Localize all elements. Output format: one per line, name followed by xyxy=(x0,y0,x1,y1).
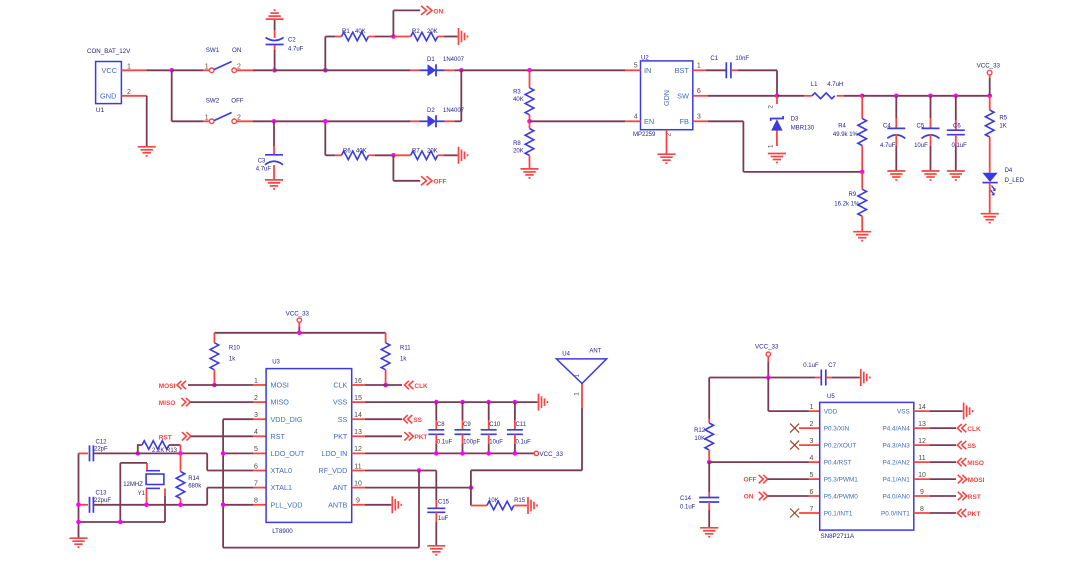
wire node A to U2 IN xyxy=(461,69,625,71)
junction C9 bottom xyxy=(460,451,465,456)
wire C2 lead upper xyxy=(274,19,276,38)
capacitor C2 4.7uF xyxy=(266,38,304,53)
junction C2 node xyxy=(272,68,277,73)
junction R13 left xyxy=(136,451,141,456)
IC U3 LT8900 xyxy=(254,359,362,535)
svg-text:7: 7 xyxy=(254,480,258,487)
svg-text:10: 10 xyxy=(918,472,926,479)
junction C11 top xyxy=(513,400,518,405)
port CLK xyxy=(404,381,428,390)
wire OFF pin5 xyxy=(768,478,820,480)
wire VDD_DIG pin3 xyxy=(223,418,266,420)
resistor R12 10K xyxy=(694,378,713,463)
wire LDO_OUT pin5 xyxy=(223,452,266,454)
wire V1 bottom loop xyxy=(223,471,419,548)
wire U2 pin4 stub xyxy=(625,120,641,122)
svg-text:PKT: PKT xyxy=(414,434,427,441)
svg-text:R14: R14 xyxy=(188,476,200,482)
wire R1 branch xyxy=(325,37,341,71)
ground below U1 xyxy=(138,147,156,156)
junction C11 bottom xyxy=(513,451,518,456)
wire U2 SW pin xyxy=(693,95,777,97)
svg-text:0.1uF: 0.1uF xyxy=(680,504,696,510)
svg-text:PLL_VDD: PLL_VDD xyxy=(271,500,303,509)
svg-text:RST: RST xyxy=(271,432,286,441)
port MOSI (U5) xyxy=(958,475,985,484)
ground below R8 xyxy=(521,169,539,178)
wire CLK xyxy=(352,384,402,386)
power port VCC_33 (U3) xyxy=(286,311,310,323)
resistor R7 20K xyxy=(393,148,457,159)
junction V1 pin8 xyxy=(221,503,226,508)
svg-text:SS: SS xyxy=(413,417,422,424)
svg-text:MOSI: MOSI xyxy=(968,477,985,484)
svg-text:R2: R2 xyxy=(412,29,420,35)
port OFF xyxy=(744,475,768,484)
junction pin11/V1 xyxy=(417,468,422,473)
ground below C4 xyxy=(887,171,905,180)
junction C6 xyxy=(954,94,959,99)
svg-text:1k: 1k xyxy=(400,357,407,363)
svg-text:15: 15 xyxy=(354,395,362,402)
wire MISO xyxy=(190,401,266,403)
LED D4 D_LED xyxy=(982,168,1024,195)
wire SW1 to C2 node xyxy=(237,69,275,71)
svg-text:C2: C2 xyxy=(288,38,296,44)
ground below left rail xyxy=(70,538,88,547)
wire MOSI pin10 xyxy=(914,478,956,480)
wire VCC33 U5 rail xyxy=(709,356,821,377)
crystal Y1 12MHZ xyxy=(79,463,166,522)
junction R5/VCC column xyxy=(987,94,992,99)
svg-text:0.1uF: 0.1uF xyxy=(952,143,968,149)
wire R1-R2 xyxy=(369,36,394,38)
capacitor C8 0.1uF xyxy=(428,402,452,453)
wire branch to SW2 xyxy=(172,70,203,121)
svg-text:4.7uF: 4.7uF xyxy=(288,47,304,53)
svg-text:1k: 1k xyxy=(229,357,236,363)
svg-text:12: 12 xyxy=(354,446,362,453)
svg-text:IN: IN xyxy=(644,66,651,75)
svg-text:1: 1 xyxy=(205,115,209,122)
wire out rail xyxy=(862,95,990,97)
svg-text:LDO_IN: LDO_IN xyxy=(321,449,347,458)
svg-text:P4.0/AN0: P4.0/AN0 xyxy=(882,493,910,500)
svg-text:0.1uF: 0.1uF xyxy=(803,363,819,369)
svg-text:R5: R5 xyxy=(999,115,1007,121)
ground right of VSS rail xyxy=(539,394,548,411)
wire RF_VDD pin11 xyxy=(352,470,437,472)
wire left rail xyxy=(78,453,80,538)
svg-text:C15: C15 xyxy=(438,500,450,506)
svg-text:2: 2 xyxy=(767,105,774,109)
svg-text:FB: FB xyxy=(680,117,690,126)
wire OFF branch xyxy=(393,155,420,181)
svg-text:SS: SS xyxy=(338,415,348,424)
port MISO xyxy=(159,398,191,407)
wire ANT pin10 xyxy=(352,487,471,489)
capacitor C11 0.1uF xyxy=(507,402,531,453)
junction Y1 lower lead xyxy=(144,503,149,508)
svg-text:C7: C7 xyxy=(828,363,836,369)
svg-text:3: 3 xyxy=(810,438,814,445)
ground below U2 GDN xyxy=(658,154,676,163)
svg-text:D_LED: D_LED xyxy=(1005,178,1025,184)
ground below D3 xyxy=(768,154,786,163)
svg-text:GND: GND xyxy=(100,91,116,100)
wire SW2 to C3 node xyxy=(237,120,275,122)
resistor R15 10K xyxy=(487,498,527,510)
svg-text:C11: C11 xyxy=(516,422,527,428)
svg-text:P0.4/RST: P0.4/RST xyxy=(824,460,852,467)
svg-text:P4.4/AN4: P4.4/AN4 xyxy=(882,426,910,433)
no-connect X pin3 xyxy=(790,441,820,450)
svg-text:RF_VDD: RF_VDD xyxy=(319,466,348,475)
svg-text:40K: 40K xyxy=(355,29,366,35)
wire node to D1 xyxy=(275,69,411,71)
junction R11/CLK xyxy=(383,383,388,388)
svg-text:5: 5 xyxy=(634,63,638,70)
svg-text:P0.0/INT1: P0.0/INT1 xyxy=(881,510,910,517)
wire CLK pin13 xyxy=(914,427,956,429)
ground below C14 xyxy=(700,528,718,537)
junction R6/R7/OFF xyxy=(391,153,396,158)
ground right of ANTB xyxy=(392,496,401,513)
wire PKT xyxy=(352,435,402,437)
junction VCC33 U5 xyxy=(766,375,771,380)
svg-text:2: 2 xyxy=(254,395,258,402)
wire R6 branch xyxy=(325,121,341,155)
svg-text:C5: C5 xyxy=(917,123,925,129)
wire to VCC33 port xyxy=(989,75,991,96)
svg-text:R8: R8 xyxy=(513,141,521,147)
svg-text:P4.3/AN3: P4.3/AN3 xyxy=(882,443,910,450)
svg-text:20K: 20K xyxy=(427,29,438,35)
svg-text:0.1uF: 0.1uF xyxy=(516,440,532,446)
wire C3 lead upper xyxy=(273,121,275,155)
svg-text:P4.1/AN1: P4.1/AN1 xyxy=(882,477,910,484)
resistor R3 40K xyxy=(513,70,534,121)
svg-text:1: 1 xyxy=(810,404,814,411)
svg-text:CLK: CLK xyxy=(967,426,981,433)
svg-text:16: 16 xyxy=(354,378,362,385)
svg-text:12MHZ: 12MHZ xyxy=(123,482,143,488)
port MOSI xyxy=(159,381,186,390)
svg-text:10nF: 10nF xyxy=(735,56,749,62)
capacitor C4 4.7uF xyxy=(880,96,905,171)
svg-text:ANTB: ANTB xyxy=(328,500,347,509)
svg-text:OFF: OFF xyxy=(434,179,447,186)
svg-text:ANT: ANT xyxy=(589,349,601,355)
svg-text:10K: 10K xyxy=(694,436,705,442)
wire PKT pin8 xyxy=(914,512,956,514)
ground below C15 xyxy=(427,546,445,555)
svg-text:4.7uF: 4.7uF xyxy=(256,166,272,172)
IC U5 SN8P2711A xyxy=(810,394,926,540)
port PKT (U5) xyxy=(957,509,980,518)
svg-text:EN: EN xyxy=(644,117,654,126)
svg-text:OFF: OFF xyxy=(744,477,757,484)
ground above C2 xyxy=(266,10,284,19)
svg-text:P4.2/AN2: P4.2/AN2 xyxy=(882,460,910,467)
svg-text:12: 12 xyxy=(918,438,926,445)
wire C1 to SW node xyxy=(731,70,777,96)
svg-text:40K: 40K xyxy=(513,97,524,103)
wire ON pin6 xyxy=(768,495,820,497)
svg-text:11: 11 xyxy=(354,463,361,470)
svg-text:1: 1 xyxy=(574,374,581,378)
wire SS pin12 xyxy=(914,444,956,446)
svg-text:U4: U4 xyxy=(562,352,570,358)
port OFF xyxy=(421,176,447,185)
wire U1 pin1 stub xyxy=(121,69,171,71)
junction Y1 loop left xyxy=(118,520,123,525)
wire C2 lead lower xyxy=(274,45,276,71)
svg-text:R11: R11 xyxy=(400,345,411,351)
wire to antenna xyxy=(471,384,582,488)
svg-text:6: 6 xyxy=(254,463,258,470)
ground below D4 xyxy=(981,214,999,223)
wire VSS pin14 xyxy=(914,410,963,412)
svg-text:C3: C3 xyxy=(258,159,266,165)
ground right of C7 xyxy=(861,369,870,386)
svg-text:20K: 20K xyxy=(513,149,524,155)
svg-text:PKT: PKT xyxy=(333,432,348,441)
svg-text:4.7uH: 4.7uH xyxy=(827,82,843,88)
svg-text:4.7uF: 4.7uF xyxy=(880,143,896,149)
svg-text:4: 4 xyxy=(634,114,638,121)
svg-text:9: 9 xyxy=(920,489,924,496)
regulator U2 MP2259 xyxy=(633,56,701,139)
wire SS xyxy=(352,418,402,420)
svg-text:MOSI: MOSI xyxy=(271,381,289,390)
svg-text:1uF: 1uF xyxy=(438,516,449,522)
junction R10/MOSI xyxy=(212,383,217,388)
svg-text:0.1uF: 0.1uF xyxy=(437,440,453,446)
svg-text:5: 5 xyxy=(254,446,258,453)
svg-text:MOSI: MOSI xyxy=(159,383,176,390)
svg-text:R4: R4 xyxy=(838,123,846,129)
svg-text:SW: SW xyxy=(677,92,689,101)
svg-text:100pF: 100pF xyxy=(463,440,480,446)
resistor R13 2.2K xyxy=(138,441,181,454)
wire to R15 xyxy=(471,488,487,506)
diode D3 MBR130 xyxy=(767,96,814,148)
svg-text:14: 14 xyxy=(354,412,362,419)
resistor R1 40K xyxy=(342,29,369,41)
svg-text:C9: C9 xyxy=(463,422,471,428)
svg-text:XTAL1: XTAL1 xyxy=(271,483,292,492)
junction node A at D1 xyxy=(459,68,464,73)
inductor L1 4.7uH xyxy=(811,82,844,99)
svg-text:D3: D3 xyxy=(791,117,799,123)
svg-text:R15: R15 xyxy=(514,498,526,504)
junction R3 top xyxy=(527,68,532,73)
svg-text:MBR130: MBR130 xyxy=(791,126,815,132)
svg-text:22puF: 22puF xyxy=(94,498,111,504)
svg-text:ON: ON xyxy=(434,8,444,15)
svg-text:7: 7 xyxy=(810,506,814,513)
junction C8 bottom xyxy=(434,451,439,456)
svg-text:LT8900: LT8900 xyxy=(272,528,293,535)
svg-text:C12: C12 xyxy=(96,439,108,445)
resistor R5 1K xyxy=(985,96,1007,173)
port RST (U5) xyxy=(958,492,981,501)
svg-text:P0.3/XIN: P0.3/XIN xyxy=(824,426,850,433)
svg-text:SW2: SW2 xyxy=(206,98,220,105)
port MISO (U5) xyxy=(957,458,984,467)
svg-text:10uF: 10uF xyxy=(489,440,503,446)
svg-text:10: 10 xyxy=(354,480,362,487)
svg-text:L1: L1 xyxy=(811,82,818,88)
port ON xyxy=(421,6,444,15)
wire U2 BST stub xyxy=(693,69,727,71)
wire U2 pin5 stub xyxy=(625,69,641,71)
port SS xyxy=(403,415,422,424)
svg-text:ON: ON xyxy=(744,494,754,501)
port RST xyxy=(159,432,191,441)
junction C10 bottom xyxy=(486,451,491,456)
wire U2 FB pin xyxy=(693,121,862,172)
svg-text:1: 1 xyxy=(254,378,258,385)
junction V1 pin5 xyxy=(221,451,226,456)
svg-text:10uF: 10uF xyxy=(914,143,928,149)
junction C10 top xyxy=(486,400,491,405)
svg-text:VSS: VSS xyxy=(333,398,348,407)
svg-text:SS: SS xyxy=(967,443,976,450)
svg-text:VCC: VCC xyxy=(102,66,118,75)
svg-text:1: 1 xyxy=(574,392,581,396)
svg-text:R1: R1 xyxy=(342,29,350,35)
svg-text:MISO: MISO xyxy=(159,400,176,407)
svg-text:LDO_OUT: LDO_OUT xyxy=(271,449,306,458)
port CLK (U5) xyxy=(957,424,981,433)
svg-text:MP2259: MP2259 xyxy=(633,132,656,138)
diode D1 1N4007 xyxy=(411,57,465,76)
capacitor C5 10uF xyxy=(914,96,939,171)
power port VCC_33 top xyxy=(977,62,1001,75)
junction VCC33 node xyxy=(860,94,865,99)
power port VCC_33 (right of C11) xyxy=(534,451,563,458)
resistor R10 1k xyxy=(210,343,240,385)
junction R1 branch xyxy=(323,68,328,73)
svg-text:SW1: SW1 xyxy=(206,47,220,54)
wire LDO_IN rail xyxy=(352,452,534,454)
svg-text:R9: R9 xyxy=(849,192,857,198)
svg-text:U2: U2 xyxy=(641,56,649,62)
svg-text:49.9k 1%: 49.9k 1% xyxy=(833,132,859,138)
svg-text:BST: BST xyxy=(675,66,690,75)
svg-text:C8: C8 xyxy=(437,422,445,428)
ground right of VSS xyxy=(964,403,973,420)
svg-text:U1: U1 xyxy=(96,107,105,114)
svg-text:D4: D4 xyxy=(1005,168,1013,174)
resistor R4 49.9k xyxy=(833,96,867,172)
wire P0.4/RST pin4 xyxy=(709,461,820,463)
svg-text:GDN: GDN xyxy=(662,90,671,106)
svg-text:6: 6 xyxy=(697,88,701,95)
capacitor C14 0.1uF xyxy=(680,462,719,527)
wire R6-R7 xyxy=(369,154,394,156)
ground below C3 xyxy=(265,180,283,189)
resistor R11 1k xyxy=(381,343,411,385)
capacitor C3 4.7uF xyxy=(256,155,283,173)
svg-text:VCC_33: VCC_33 xyxy=(540,451,564,458)
junction R1/R2/ON xyxy=(391,34,396,39)
svg-text:C10: C10 xyxy=(489,422,501,428)
wire PLL_VDD pin8 xyxy=(223,504,266,506)
wire D2 up to node A xyxy=(460,70,462,121)
ground below C5 xyxy=(922,171,940,180)
svg-text:3: 3 xyxy=(697,114,701,121)
wire LDO rail V1 xyxy=(222,419,224,547)
svg-text:1K: 1K xyxy=(999,124,1006,130)
svg-text:ANT: ANT xyxy=(333,483,348,492)
svg-text:16.2k 1%: 16.2k 1% xyxy=(834,202,860,208)
svg-text:R6: R6 xyxy=(343,148,351,154)
port ON xyxy=(744,492,768,501)
svg-text:11: 11 xyxy=(918,455,925,462)
capacitor C9 100pF xyxy=(455,402,481,453)
ground right of R7 xyxy=(459,147,468,164)
svg-text:22pF: 22pF xyxy=(94,447,108,453)
svg-text:PKT: PKT xyxy=(967,511,980,518)
svg-text:Y1: Y1 xyxy=(138,491,146,497)
svg-text:1: 1 xyxy=(697,63,701,70)
wire U2 GDN stub xyxy=(666,130,668,155)
svg-text:9: 9 xyxy=(356,498,360,505)
capacitor C6 0.1uF xyxy=(947,96,967,171)
svg-text:U5: U5 xyxy=(827,394,835,400)
svg-text:40K: 40K xyxy=(356,148,367,154)
svg-text:R7: R7 xyxy=(412,148,420,154)
svg-text:P5.3/PWM1: P5.3/PWM1 xyxy=(824,477,859,484)
resistor R14 680k xyxy=(176,453,202,504)
resistor R8 20K xyxy=(513,121,534,169)
svg-text:C14: C14 xyxy=(680,496,692,502)
wire L1 to out node xyxy=(837,95,863,97)
svg-text:3: 3 xyxy=(254,412,258,419)
capacitor C1 10nF xyxy=(710,56,749,78)
svg-text:8: 8 xyxy=(254,498,258,505)
svg-text:8: 8 xyxy=(920,506,924,513)
junction C13 left xyxy=(76,503,81,508)
svg-text:14: 14 xyxy=(918,404,926,411)
wire VCC33 rail U3 xyxy=(214,322,385,343)
svg-text:CLK: CLK xyxy=(333,381,347,390)
junction R14 bottom xyxy=(178,503,183,508)
junction R3/R8/EN xyxy=(527,119,532,124)
wire EN xyxy=(530,120,626,122)
svg-text:VDD: VDD xyxy=(824,409,838,416)
connector U1 CON_BAT_12V xyxy=(87,48,131,114)
svg-text:RST: RST xyxy=(159,434,172,441)
svg-text:13: 13 xyxy=(354,429,362,436)
svg-text:CON_BAT_12V: CON_BAT_12V xyxy=(87,48,131,55)
svg-text:SN8P2711A: SN8P2711A xyxy=(821,533,855,540)
wire MOSI xyxy=(188,384,266,386)
wire VDD pin1 xyxy=(768,378,819,412)
svg-text:R12: R12 xyxy=(694,428,706,434)
switch SW2 xyxy=(203,98,244,124)
svg-text:2: 2 xyxy=(810,421,814,428)
svg-text:RST: RST xyxy=(968,494,981,501)
junction VCC33 rail xyxy=(297,331,302,336)
svg-text:MISO: MISO xyxy=(271,398,290,407)
svg-text:C6: C6 xyxy=(953,123,961,129)
no-connect X pin2 xyxy=(790,424,820,433)
capacitor C12 22pF xyxy=(79,439,109,461)
